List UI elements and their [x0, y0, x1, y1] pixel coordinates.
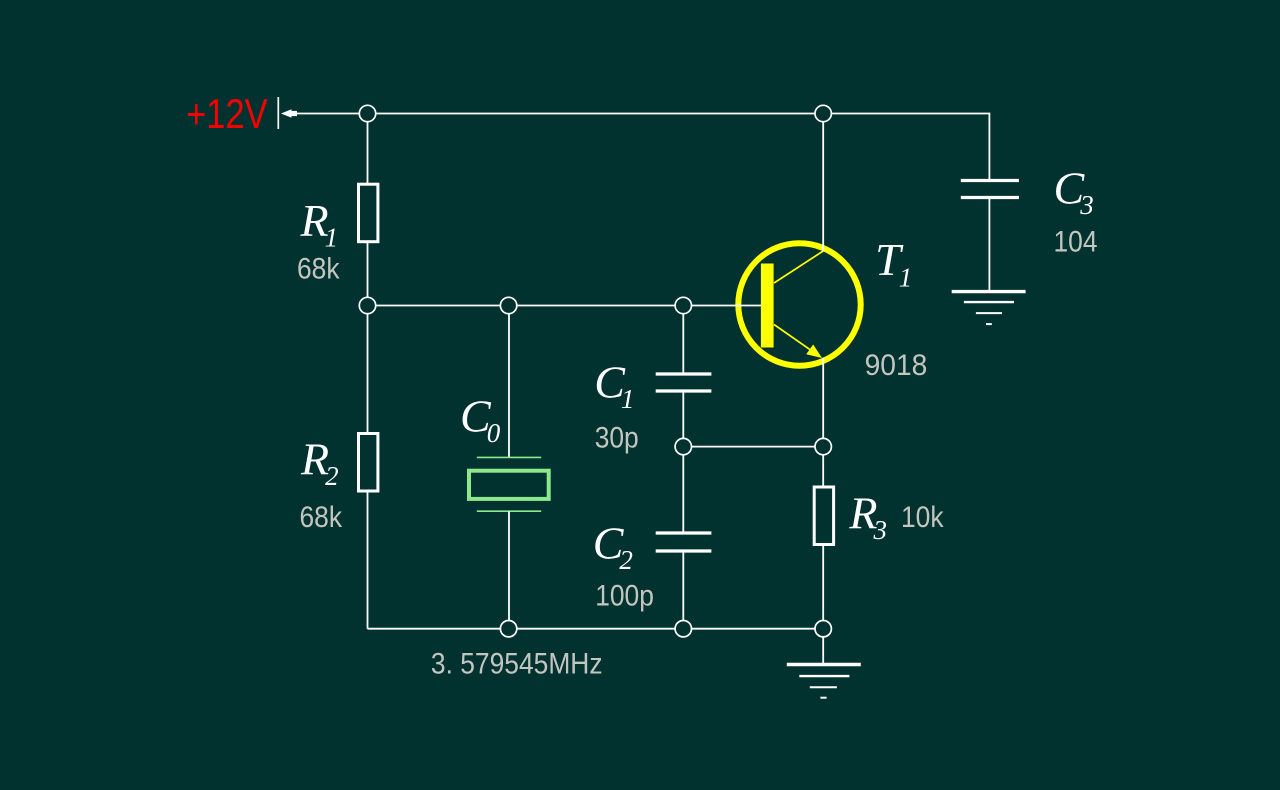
ground (emitter) — [787, 665, 861, 698]
resistor R2 — [359, 434, 378, 492]
capacitor C3 bottom plate — [961, 196, 1019, 199]
svg-text:100p: 100p — [595, 578, 654, 612]
wire emitter down — [822, 358, 824, 447]
node R3 bottom — [815, 621, 831, 637]
node collector top — [815, 105, 831, 121]
node base-left — [359, 297, 375, 313]
svg-text:10k: 10k — [901, 499, 944, 533]
wire C2 bottom — [682, 551, 684, 629]
resistor R1 — [359, 184, 378, 242]
transistor base bar — [761, 264, 774, 348]
node crystal bottom — [500, 621, 516, 637]
terminal tick — [277, 97, 279, 129]
capacitor C3 top plate — [961, 179, 1019, 182]
wire arrow tail stub — [292, 111, 298, 116]
wire R2 top — [367, 306, 369, 433]
wire collector top — [822, 114, 824, 252]
crystal bottom plate — [477, 510, 541, 512]
transistor collector line — [774, 251, 823, 283]
node emitter/R3 — [815, 438, 831, 454]
svg-text:9018: 9018 — [865, 349, 928, 382]
wire crystal bottom — [508, 511, 510, 629]
svg-text:68k: 68k — [297, 251, 340, 285]
node crystal top — [500, 297, 516, 313]
crystal C0 body — [469, 471, 549, 499]
node emitter/C1C2 — [675, 438, 691, 454]
capacitor C2 bottom plate — [656, 549, 712, 552]
wire C1 top — [682, 306, 684, 375]
wire R3 top — [822, 447, 824, 486]
wire middle rail — [368, 305, 762, 307]
wire bottom rail — [368, 628, 824, 630]
node C2 bottom — [675, 621, 691, 637]
svg-text:+12V: +12V — [186, 91, 268, 138]
wire arrow to +12V — [281, 109, 292, 118]
wire R1 to node — [367, 243, 369, 306]
transistor Q1 circle — [738, 243, 860, 365]
wire emitter rail — [683, 446, 823, 448]
ground (C3) — [952, 292, 1026, 325]
svg-text:30p: 30p — [595, 420, 639, 454]
capacitor C1 top plate — [656, 372, 712, 375]
wire R3 bottom — [822, 545, 824, 629]
wire C3 to ground — [988, 198, 990, 292]
capacitor C1 bottom plate — [656, 389, 712, 392]
capacitor C2 top plate — [656, 531, 712, 534]
svg-text:68k: 68k — [300, 499, 343, 533]
svg-text:3. 579545MHz: 3. 579545MHz — [431, 646, 603, 680]
crystal top plate — [477, 456, 541, 458]
resistor R3 — [814, 487, 833, 545]
wire crystal top — [508, 306, 510, 458]
wire top rail — [296, 114, 989, 181]
node top-left — [359, 105, 375, 121]
transistor emitter arrowhead — [806, 345, 822, 359]
transistor emitter line — [774, 325, 818, 356]
wire left rail upper — [367, 114, 369, 184]
wire to ground (emitter) — [822, 629, 824, 665]
svg-text:104: 104 — [1054, 224, 1098, 258]
wire R2 bottom — [367, 491, 369, 629]
node base/C1 — [675, 297, 691, 313]
wire C1 to C2 — [682, 391, 684, 533]
